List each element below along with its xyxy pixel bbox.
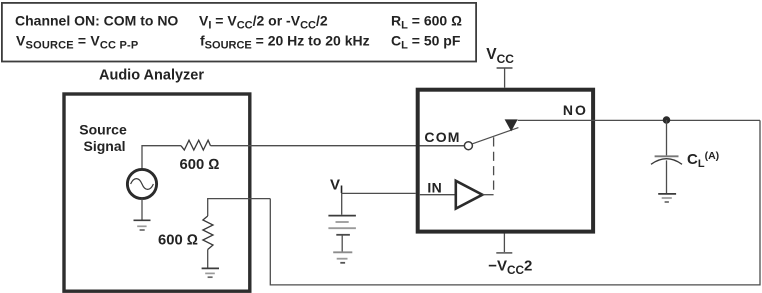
ground (RL) (207, 250, 209, 268)
dashed control line (493, 137, 495, 194)
switch contact triangle (505, 119, 518, 131)
ground (battery) (333, 251, 352, 253)
svg-text:IN: IN (427, 179, 442, 195)
svg-text:Audio Analyzer: Audio Analyzer (99, 68, 204, 84)
buffer U1 (456, 181, 483, 209)
-VCC supply terminal (503, 234, 505, 253)
resistor RL 600 ohm vertical (203, 216, 213, 250)
battery VI (328, 215, 356, 217)
capacitor CL (655, 155, 679, 157)
ground (capacitor) (658, 193, 676, 195)
ground (source) (141, 199, 143, 220)
node junction (663, 116, 671, 124)
wire NO output (518, 119, 760, 121)
COM contact circle (464, 142, 472, 150)
Audio Analyzer box (64, 94, 250, 291)
DUT box (418, 90, 593, 232)
return loop wire (270, 120, 760, 285)
svg-text:Channel ON: COM to NO: Channel ON: COM to NO (15, 13, 178, 29)
wire RS to COM (211, 145, 465, 147)
test conditions box (2, 3, 476, 62)
wire node to capacitor (666, 120, 668, 155)
wire buffer output (482, 194, 493, 196)
wire RL top to return loop (208, 199, 271, 216)
svg-text:Signal: Signal (83, 138, 125, 154)
wire IN pin (420, 194, 455, 196)
VCC supply terminal (497, 67, 513, 69)
resistor RS 600 ohm horizontal (181, 140, 211, 150)
wire COM pin (420, 145, 465, 147)
svg-text:600 Ω: 600 Ω (158, 232, 198, 248)
switch arm (472, 128, 518, 144)
svg-text:600 Ω: 600 Ω (180, 157, 220, 173)
source signal generator (127, 169, 156, 198)
wire VI to IN (342, 193, 416, 214)
svg-text:NO: NO (563, 102, 588, 118)
svg-text:Source: Source (79, 122, 127, 138)
wire source to resistor RS (142, 146, 181, 170)
svg-text:COM: COM (424, 129, 460, 145)
